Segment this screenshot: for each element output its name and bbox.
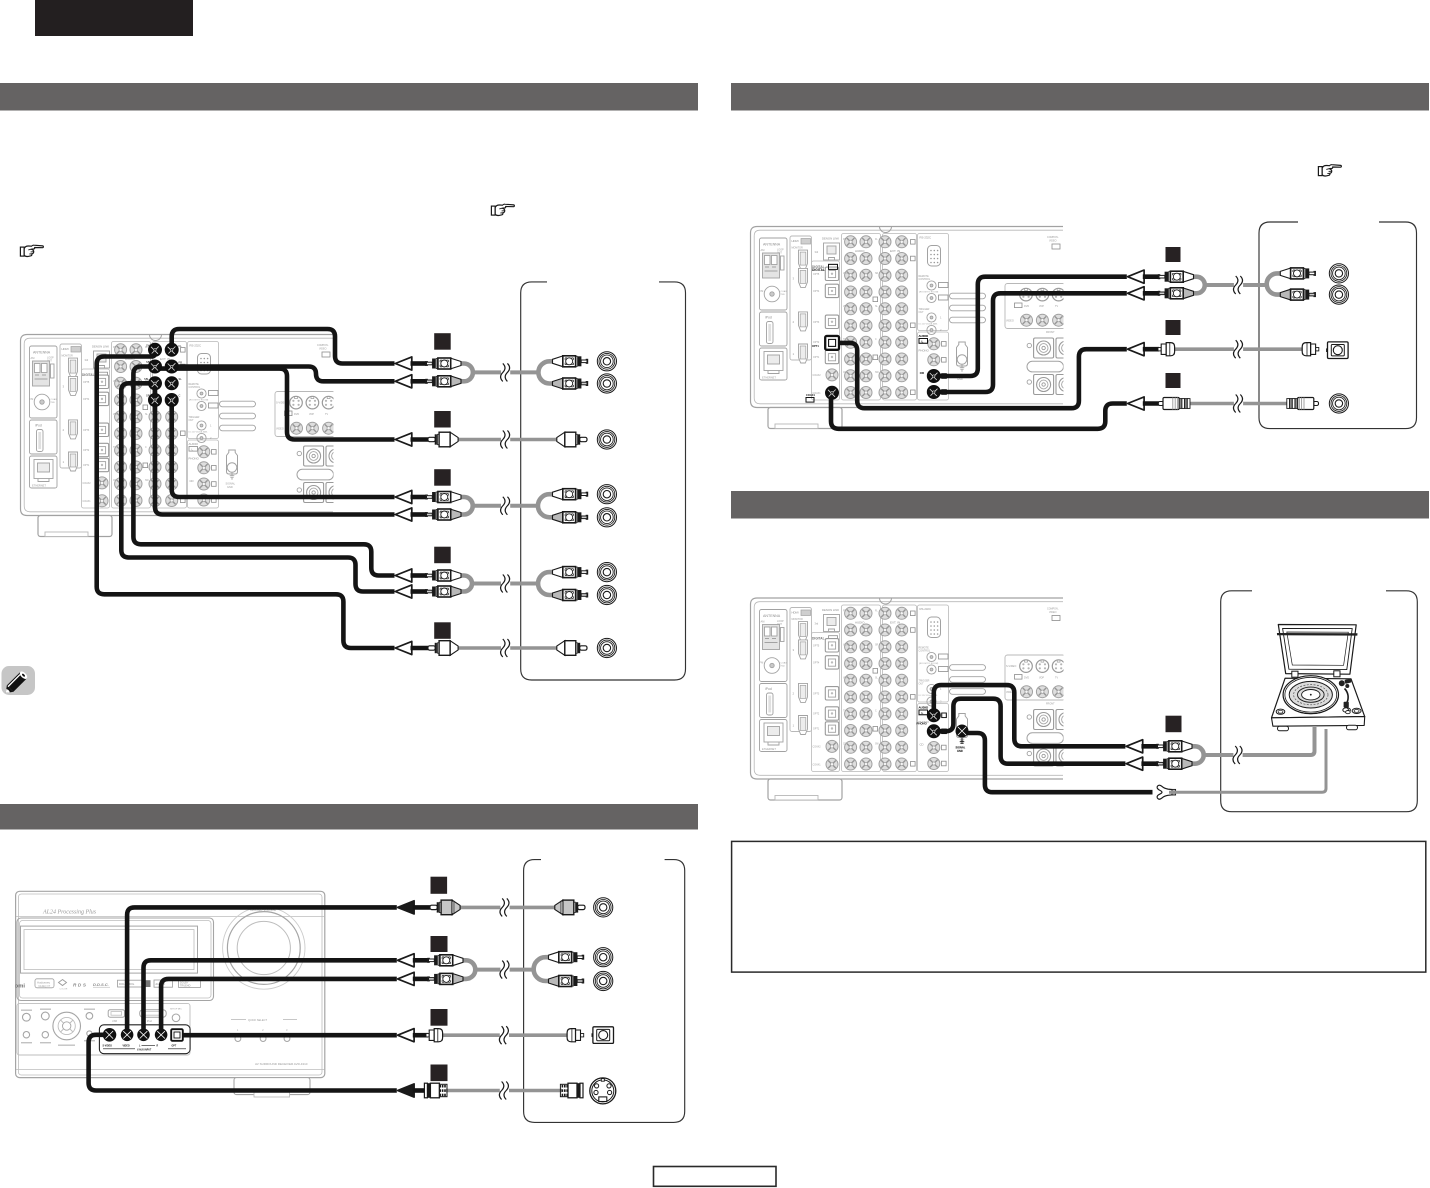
front group 2 RCA plugs left bbox=[428, 955, 463, 985]
group 3 RCA plugs (right, L/R) bbox=[553, 489, 588, 523]
group 1 arrows bbox=[395, 357, 412, 388]
svg-text:VIDEO: VIDEO bbox=[123, 1046, 130, 1048]
receiver rear panel (left diagram) bbox=[21, 335, 347, 537]
front group 2 arrows bbox=[398, 954, 415, 986]
note (pencil) icon bbox=[2, 666, 36, 696]
svg-text:SIGNAL: SIGNAL bbox=[956, 746, 966, 750]
recorder group 1 marker bbox=[1166, 247, 1181, 262]
svg-text:RDS: RDS bbox=[73, 983, 88, 988]
recorder group 1 jacks bbox=[1329, 264, 1348, 304]
plugged PHONO L/R jacks (black) bbox=[917, 706, 947, 738]
connection group 4 marker bbox=[434, 547, 451, 564]
connection group 3 marker bbox=[434, 469, 451, 486]
note box (bottom right) bbox=[732, 841, 1426, 972]
svg-text:V.AUX INPUT: V.AUX INPUT bbox=[137, 1049, 152, 1052]
front optical plug left bbox=[426, 1029, 443, 1042]
recorder group 3 arrow bbox=[1128, 397, 1145, 410]
plugged OPT1 jack (black) bbox=[812, 264, 839, 349]
group 3 arrows bbox=[395, 490, 412, 521]
cable: SIGNAL GND to spade lug bbox=[967, 733, 1153, 792]
cable: front S-VIDEO jack to row 5 bbox=[89, 1035, 397, 1091]
recorder coaxial plug left bbox=[1158, 398, 1190, 410]
group 2 cable stub bbox=[411, 437, 429, 442]
cable: front AUDIO R jack to row 3 bbox=[161, 979, 397, 1031]
front group 1 marker bbox=[431, 877, 448, 894]
svg-text:TRUEHD: TRUEHD bbox=[180, 985, 191, 988]
front group 1 RCA plug left bbox=[430, 900, 460, 915]
group 2 RCA plug (left) bbox=[428, 432, 458, 447]
recorder coaxial plug right bbox=[1287, 398, 1319, 410]
svg-text:SETUP MIC: SETUP MIC bbox=[170, 1009, 182, 1011]
cable: front OPT jack to row 4 bbox=[182, 1033, 397, 1038]
svg-text:OPT: OPT bbox=[172, 1046, 177, 1048]
front group 1 stub bbox=[413, 905, 430, 910]
cable: FR jack to row 2 bbox=[172, 367, 395, 382]
group 4 input jacks L/R bbox=[597, 563, 616, 605]
cable: PHONO R jack to row 2 bbox=[934, 699, 1126, 764]
turntable RCA plugs bbox=[1157, 741, 1192, 769]
group 4 stereo audio cable bbox=[460, 572, 554, 595]
front panel chassis bbox=[16, 891, 325, 1077]
svg-text:AUDIO: AUDIO bbox=[919, 334, 929, 338]
recorder optical plug left bbox=[1158, 343, 1175, 356]
group 4 RCA plugs (right, L/R) bbox=[553, 567, 588, 601]
cable: CD L jack to row 1 bbox=[935, 277, 1127, 376]
svg-text:ɔmi: ɔmi bbox=[15, 984, 25, 990]
svg-text:SBR: SBR bbox=[146, 360, 151, 364]
group 5 RCA plug (right) bbox=[557, 641, 587, 656]
cable: C jack to row 3 bbox=[155, 369, 395, 440]
quick select buttons bbox=[231, 1019, 297, 1021]
front group 3 arrow bbox=[398, 1029, 415, 1042]
group 1 RCA plugs (right, L/R) bbox=[553, 356, 588, 389]
connection group 1 marker bbox=[434, 333, 451, 350]
svg-text:L: L bbox=[922, 711, 924, 715]
recorder group 1 RCA plugs right bbox=[1280, 268, 1315, 300]
group 3 RCA plugs (left, L/R) bbox=[426, 492, 461, 521]
front group 1 RCA plug right bbox=[555, 900, 585, 915]
cable: SBR jack to row 8 bbox=[97, 350, 395, 648]
device box (turntable) bbox=[1221, 591, 1418, 812]
group 5 cable stub bbox=[411, 646, 429, 651]
recorder optical jack bbox=[1326, 342, 1348, 359]
svg-text:OPT1: OPT1 bbox=[812, 344, 819, 348]
front optical cable bbox=[441, 1026, 570, 1044]
receiver front panel bbox=[15, 891, 325, 1097]
group 3 stereo audio cable bbox=[460, 494, 554, 517]
recorder group 1 RCA plugs left bbox=[1158, 271, 1193, 299]
front group 2 stereo cable bbox=[462, 957, 550, 981]
V.AUX input jack group bbox=[99, 1025, 190, 1054]
group 1 input jacks L/R bbox=[597, 352, 616, 393]
svg-text:AUDIO: AUDIO bbox=[919, 706, 929, 710]
cable: FL jack to row 1 bbox=[172, 329, 395, 364]
cable: SR jack to row 6 bbox=[133, 367, 394, 576]
front group 2 marker bbox=[431, 936, 448, 952]
group 5 input jack bbox=[597, 638, 616, 657]
group 1 stereo audio cable bbox=[460, 361, 554, 383]
front group 1 jack bbox=[594, 898, 613, 917]
front USB port bbox=[108, 1010, 124, 1018]
recorder group 3 marker bbox=[1166, 373, 1181, 388]
svg-text:DIGITAL: DIGITAL bbox=[812, 268, 825, 272]
cable: OPT jack to row 3 bbox=[836, 343, 1127, 408]
master volume knob bbox=[223, 907, 305, 989]
recorder coaxial jack bbox=[1329, 394, 1348, 413]
front group 1 arrow (solid) bbox=[398, 901, 415, 914]
recorder group 1 stereo cable bbox=[1193, 273, 1282, 294]
front controls / buttons bbox=[17, 1003, 190, 1055]
recorder coaxial cable bbox=[1188, 395, 1288, 413]
section bar: right column middle bbox=[731, 491, 1429, 519]
svg-text:S-VIDEO: S-VIDEO bbox=[103, 1046, 113, 1048]
svg-text:FR: FR bbox=[179, 361, 183, 365]
svg-text:iPod: iPod bbox=[147, 1020, 152, 1023]
plugged CD L/R jacks (black) bbox=[919, 334, 947, 399]
connection group 2 marker bbox=[434, 411, 451, 428]
group 5 arrow bbox=[395, 641, 412, 654]
front group 4 marker bbox=[431, 1065, 448, 1082]
svg-text:COAX1: COAX1 bbox=[806, 393, 815, 397]
group 5 video cable bbox=[456, 639, 559, 657]
device box (video camera etc.) bbox=[524, 860, 685, 1123]
section bar: left column top bbox=[0, 83, 698, 111]
cable: COAX jack to row 4 bbox=[831, 396, 1127, 429]
recorder group 1 stubs bbox=[1143, 277, 1159, 294]
svg-text:SR: SR bbox=[146, 394, 150, 398]
connection group 5 marker bbox=[434, 622, 451, 639]
turntable marker bbox=[1166, 716, 1182, 733]
svg-text:C: C bbox=[179, 394, 181, 398]
front s-video plug right bbox=[560, 1083, 583, 1098]
front group 4 stub bbox=[413, 1088, 426, 1093]
receiver rear panel (right top) bbox=[751, 227, 1077, 429]
page header tab bbox=[35, 0, 193, 36]
recorder group 2 marker bbox=[1166, 320, 1181, 335]
cable: front AUDIO L jack to row 2 bbox=[144, 960, 397, 1031]
plugged COAX1 jack (black) bbox=[806, 386, 839, 402]
recorder optical cable bbox=[1173, 340, 1303, 358]
svg-text:D.D.S.C.: D.D.S.C. bbox=[93, 982, 109, 987]
front optical jack bbox=[592, 1027, 614, 1044]
group 1 cable stubs bbox=[411, 364, 427, 382]
front group 4 arrow (solid) bbox=[398, 1084, 415, 1097]
turntable drawing bbox=[1272, 625, 1365, 731]
svg-text:AL24 Processing Plus: AL24 Processing Plus bbox=[42, 909, 97, 916]
reference hand icon 2 bbox=[20, 245, 43, 256]
reference hand icon 3 bbox=[1318, 165, 1341, 176]
svg-text:SBL: SBL bbox=[144, 377, 149, 381]
turntable stubs bbox=[1141, 746, 1157, 763]
svg-text:QUICK SELECT: QUICK SELECT bbox=[248, 1018, 267, 1022]
group 2 arrow bbox=[395, 433, 412, 446]
page number box bbox=[654, 1167, 777, 1187]
group 2 input jack bbox=[597, 430, 616, 449]
section bar: left column bottom bbox=[0, 804, 698, 830]
recorder group 2 arrow bbox=[1128, 343, 1145, 356]
front group 3 stub bbox=[413, 1033, 428, 1038]
recorder group 1 arrows bbox=[1128, 270, 1145, 300]
front group 2 stubs bbox=[413, 960, 429, 979]
svg-text:PHONO: PHONO bbox=[917, 722, 928, 726]
group 4 RCA plugs (left, L/R) bbox=[426, 570, 461, 597]
cable: front VIDEO jack to row 1 bbox=[127, 907, 397, 1031]
turntable arrows bbox=[1126, 740, 1143, 771]
svg-text:USB: USB bbox=[112, 1020, 117, 1023]
group 2 RCA plug (right) bbox=[557, 432, 587, 447]
group 3 cable stubs bbox=[411, 497, 427, 515]
recorder group 2 stub bbox=[1143, 347, 1159, 352]
section bar: right column top bbox=[731, 83, 1429, 111]
front s-video plug left bbox=[424, 1083, 447, 1098]
receiver rear panel (right bottom) bbox=[751, 598, 1077, 800]
front s-video cable bbox=[446, 1082, 562, 1100]
group 4 arrows bbox=[395, 569, 412, 598]
cable: SL jack to row 5 bbox=[155, 383, 395, 514]
turntable stereo cable bbox=[1191, 727, 1315, 764]
front group 2 RCA plugs right bbox=[549, 952, 584, 987]
svg-text:Audyssey: Audyssey bbox=[37, 980, 51, 984]
svg-text:GND: GND bbox=[957, 749, 963, 753]
cable: PHONO L jack to row 1 bbox=[934, 685, 1126, 746]
svg-text:CD: CD bbox=[920, 371, 924, 375]
group 1 RCA plugs (left, L/R) bbox=[426, 358, 461, 387]
svg-text:AV SURROUND RECEIVER AVR-4310: AV SURROUND RECEIVER AVR-4310 bbox=[255, 1062, 308, 1066]
svg-text:COLOR: COLOR bbox=[60, 989, 68, 991]
svg-text:MultEQ XT: MultEQ XT bbox=[39, 985, 51, 988]
front s-video jack bbox=[590, 1078, 616, 1104]
front panel foot bbox=[234, 1078, 310, 1095]
front optical plug right bbox=[567, 1029, 584, 1042]
front group 2 jacks bbox=[594, 948, 613, 991]
ground spade lug bbox=[1157, 729, 1326, 799]
cable: SBL jack to row 7 bbox=[121, 383, 394, 591]
reference hand icon 1 bbox=[491, 204, 514, 215]
plugged SIGNAL GND terminal (black) bbox=[956, 725, 969, 754]
svg-text:SL: SL bbox=[179, 377, 183, 381]
group 2 video cable bbox=[456, 431, 559, 449]
front group 1 video cable bbox=[458, 898, 557, 916]
svg-text:L: L bbox=[922, 339, 924, 343]
plugged EXT.IN jacks (black) bbox=[144, 343, 182, 406]
group 5 RCA plug (left) bbox=[428, 641, 458, 656]
front group 3 marker bbox=[431, 1009, 448, 1026]
svg-text:SW: SW bbox=[146, 344, 151, 348]
group 4 cable stubs bbox=[411, 576, 427, 592]
front display door bbox=[17, 918, 214, 1001]
recorder group 3 stub bbox=[1143, 401, 1159, 406]
group 3 input jacks L/R bbox=[597, 485, 616, 527]
cable: SW jack to row 4 bbox=[172, 400, 395, 497]
cable: CD R jack to row 2 bbox=[935, 293, 1127, 392]
recorder optical plug right bbox=[1302, 343, 1319, 356]
device box (recorder) bbox=[1259, 222, 1417, 429]
device box (power amplifier) bbox=[521, 282, 686, 680]
